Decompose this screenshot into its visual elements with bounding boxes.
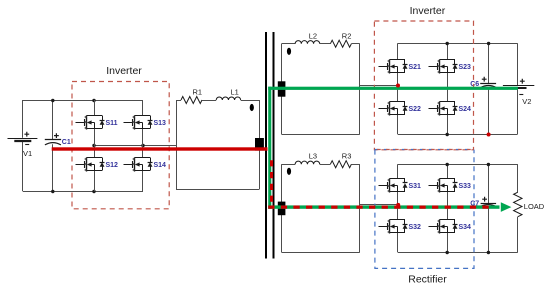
- svg-text:S34: S34: [459, 224, 472, 231]
- svg-text:R1: R1: [193, 88, 203, 97]
- svg-text:V2: V2: [522, 97, 531, 106]
- svg-text:V1: V1: [23, 149, 32, 158]
- svg-text:L3: L3: [309, 152, 317, 161]
- svg-text:Rectifier: Rectifier: [408, 274, 447, 286]
- svg-text:L2: L2: [309, 32, 317, 41]
- svg-text:L1: L1: [231, 88, 239, 97]
- svg-text:S12: S12: [106, 162, 119, 169]
- svg-text:Inverter: Inverter: [106, 65, 142, 77]
- svg-text:Inverter: Inverter: [410, 5, 446, 17]
- svg-text:R3: R3: [342, 152, 352, 161]
- svg-text:S32: S32: [409, 224, 422, 231]
- svg-text:S21: S21: [409, 64, 422, 71]
- svg-text:C1: C1: [62, 139, 71, 146]
- svg-text:S22: S22: [409, 106, 422, 113]
- svg-text:S14: S14: [154, 162, 167, 169]
- svg-text:LOAD: LOAD: [524, 202, 545, 211]
- svg-text:R2: R2: [342, 32, 352, 41]
- svg-text:S33: S33: [459, 183, 472, 190]
- svg-text:S11: S11: [106, 120, 118, 127]
- svg-text:S31: S31: [409, 183, 422, 190]
- svg-text:S24: S24: [459, 106, 472, 113]
- svg-text:S13: S13: [154, 120, 167, 127]
- svg-text:S23: S23: [459, 64, 472, 71]
